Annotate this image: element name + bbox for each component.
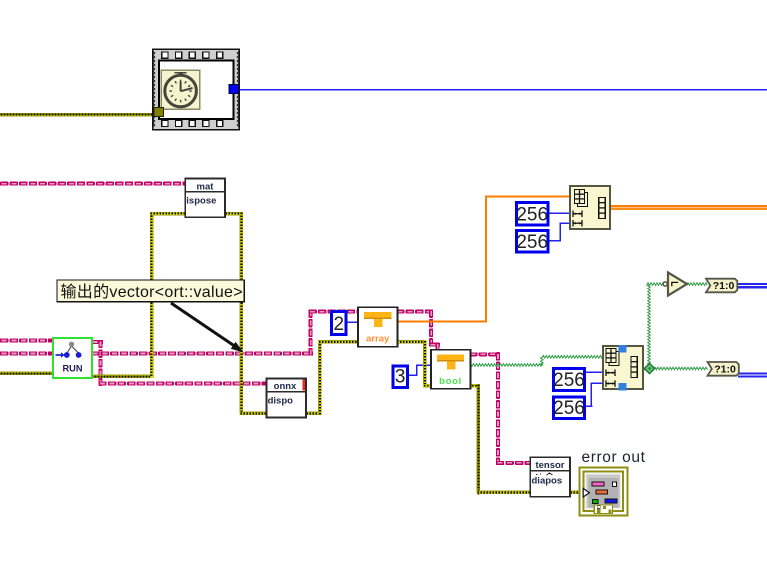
svg-text:2: 2	[334, 314, 345, 335]
wire blue 2 to array	[347, 321, 359, 323]
wire error vertical x=151.5	[150, 212, 154, 378]
svg-text:dispo: dispo	[268, 396, 294, 407]
wire green vertical to NOT gate	[648, 284, 651, 368]
wire error-in RUN	[0, 372, 54, 375]
wire pink horizontal into array node	[308, 310, 359, 314]
wire blue from sequence tunnel to right edge	[238, 89, 767, 91]
svg-text:256: 256	[516, 232, 548, 253]
tunnel blue (ms out)	[229, 84, 238, 93]
tooltip label 输出的vector	[57, 280, 244, 302]
wire blue ms-timer inside sequence	[199, 89, 230, 91]
flat sequence structure frame	[153, 49, 239, 129]
wire pink cluster to mat node	[0, 182, 186, 186]
wire orange array out	[396, 320, 487, 322]
constant 3	[393, 366, 408, 388]
svg-text:tensor: tensor	[535, 460, 564, 471]
tunnel olive (error in)	[154, 108, 164, 117]
svg-text:mat: mat	[197, 181, 215, 192]
svg-text:diapos: diapos	[532, 475, 563, 486]
wire blue 2D from ?1:0 top	[737, 283, 767, 285]
svg-text:输出的vector<ort::value>: 输出的vector<ort::value>	[61, 283, 243, 301]
wire error vertical x=478.5	[477, 384, 480, 494]
wire pink array out to bool	[396, 310, 433, 314]
tensor dispose VI node	[530, 457, 570, 497]
wire error-in to sequence tunnel	[0, 113, 154, 117]
svg-text:ispose: ispose	[186, 196, 216, 207]
wire blue 256a2 staircase	[548, 240, 561, 242]
svg-text:onnx: onnx	[274, 381, 297, 392]
select ?1:0 node top	[706, 279, 737, 293]
error out indicator	[579, 467, 627, 515]
wire pink RUN input 1	[0, 339, 54, 343]
constant 256 #3	[553, 369, 585, 392]
wire error vertical x=320	[318, 340, 321, 415]
svg-text:RUN: RUN	[63, 364, 83, 374]
wire error horizontal behind mat node	[150, 212, 243, 216]
svg-text:3: 3	[395, 367, 406, 388]
svg-text:bool: bool	[439, 376, 462, 387]
wire error horizontal behind tensor node to error out	[477, 491, 584, 494]
svg-text:?1:0: ?1:0	[714, 364, 736, 376]
wire error vertical x=241.5	[240, 212, 244, 415]
svg-text:error out: error out	[582, 449, 646, 466]
coercion square top	[618, 345, 626, 352]
wire pink hook down into bool	[436, 342, 440, 350]
wire pink RUN out 2 long horizontal	[91, 352, 313, 356]
wire orange into reshape1	[485, 195, 571, 197]
wire error horizontal behind array node	[318, 340, 427, 343]
wire green into reshape2	[542, 356, 604, 359]
wire pink bool out to tensor	[469, 352, 500, 356]
wire pink vertical up at x=310.6	[309, 309, 313, 355]
svg-text:256: 256	[553, 370, 585, 391]
wire pink vertical x=498	[496, 352, 500, 465]
wire error vertical x=425	[423, 340, 426, 387]
array node (to tensor array)	[358, 307, 398, 347]
wire green jog up	[541, 357, 544, 365]
wait(ms) timer icon U-timer	[161, 70, 199, 109]
wire blue 256b1 to reshape2	[585, 371, 605, 373]
wire orange 2D out of reshape1	[609, 205, 767, 207]
wire blue 3 to bool staircase	[408, 374, 417, 376]
wire error chain RUN to mat	[91, 375, 153, 378]
wire pink vertical down x=431	[429, 309, 433, 346]
RUN node	[53, 338, 92, 378]
wire pink hook horizontal	[429, 343, 440, 347]
tooltip arrow	[171, 303, 244, 353]
select ?1:0 node bottom	[708, 362, 739, 376]
wire pink horizontal to onnx node	[98, 382, 267, 386]
coercion square bottom	[618, 383, 626, 390]
mat dispose VI node	[185, 179, 225, 218]
wire blue 256a1 to reshape1	[548, 213, 571, 215]
wire error horizontal behind bool node	[423, 384, 480, 388]
svg-text:?1:0: ?1:0	[713, 280, 735, 292]
wire error horizontal behind onnx node	[240, 412, 322, 415]
constant 256 #4	[553, 397, 585, 419]
bool node (to tensor bool)	[431, 350, 471, 389]
NOT gate	[663, 273, 687, 296]
constant 256 #2	[516, 230, 548, 253]
wire green reshape2 out to select	[642, 367, 708, 370]
wire pink RUN out to onnx: stub	[91, 340, 103, 344]
onnx dispose VI node	[267, 378, 307, 417]
wire green NOT out	[687, 283, 708, 286]
wire pink RUN input 2	[0, 352, 54, 356]
reshape array node #1	[570, 186, 610, 229]
reshape array node #2	[603, 345, 643, 390]
svg-text:256: 256	[516, 205, 548, 226]
wire pink vertical down at x=100.5	[99, 340, 103, 386]
wire junction green dot	[644, 363, 654, 373]
svg-text:array: array	[366, 334, 390, 345]
constant 2	[332, 312, 347, 336]
wire blue 256b2 staircase	[585, 405, 593, 407]
wire pink into tensor	[496, 461, 532, 465]
svg-text:256: 256	[553, 398, 585, 419]
wire green bool out	[469, 364, 543, 367]
wire blue 2D from ?1:0 bottom	[738, 372, 767, 374]
wire orange vertical x=486	[485, 195, 487, 322]
wire green to NOT input	[647, 283, 664, 286]
constant 256 #1	[516, 203, 548, 226]
